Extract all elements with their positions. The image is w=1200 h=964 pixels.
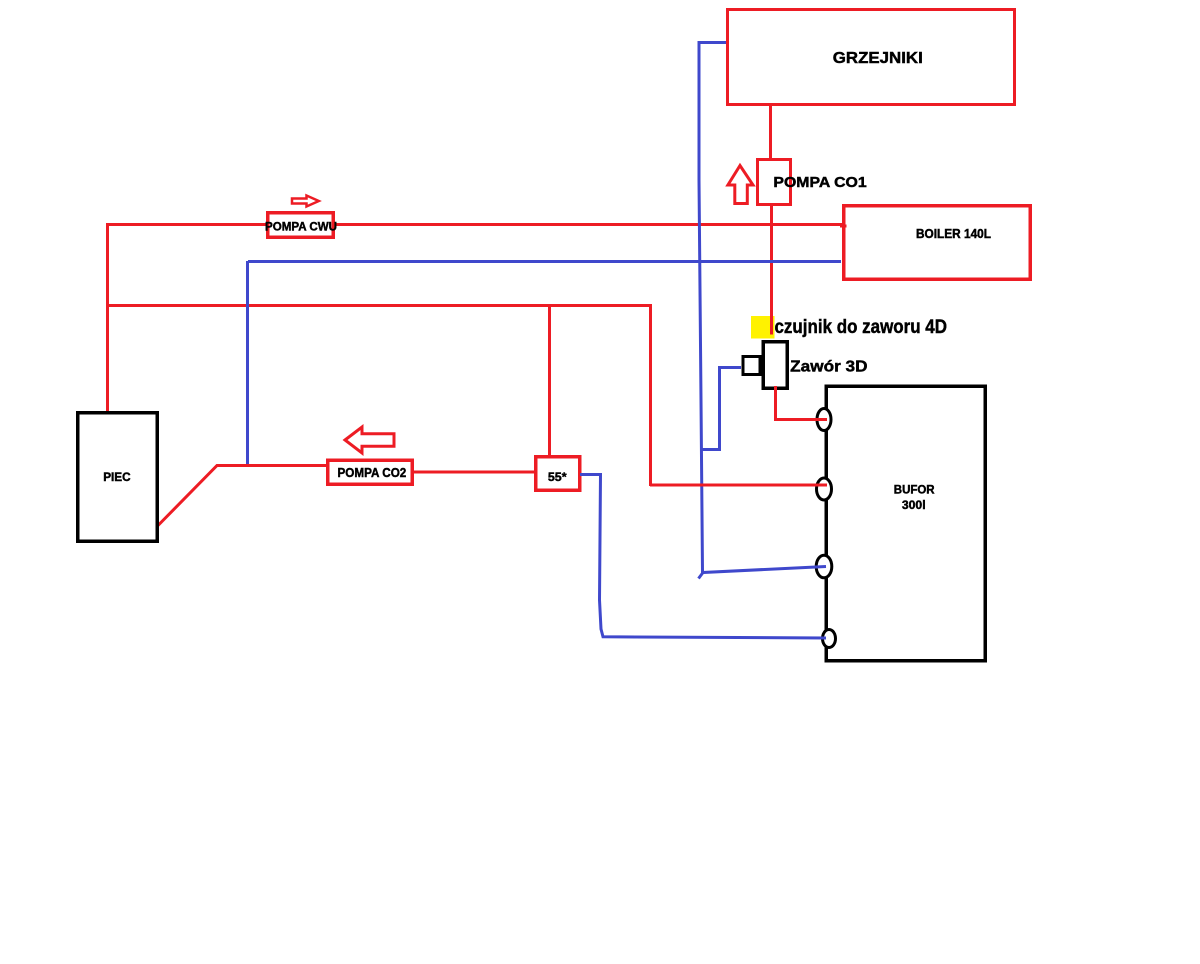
- svg-text:POMPA CWU: POMPA CWU: [265, 220, 337, 234]
- svg-text:POMPA CO1: POMPA CO1: [773, 175, 866, 191]
- svg-text:GRZEJNIKI: GRZEJNIKI: [833, 50, 923, 67]
- svg-text:POMPA CO2: POMPA CO2: [338, 465, 407, 480]
- svg-text:Zawór 3D: Zawór 3D: [790, 359, 867, 376]
- svg-text:55*: 55*: [548, 470, 567, 484]
- svg-text:BUFOR: BUFOR: [894, 485, 935, 497]
- svg-text:czujnik do zaworu 4D: czujnik do zaworu 4D: [775, 317, 948, 338]
- svg-text:BOILER 140L: BOILER 140L: [916, 227, 991, 241]
- svg-text:PIEC: PIEC: [103, 470, 131, 484]
- svg-text:300l: 300l: [902, 500, 926, 512]
